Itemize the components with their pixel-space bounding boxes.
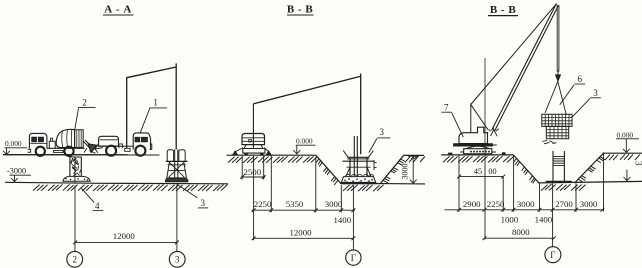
pit slope hatching middle — [316, 157, 425, 192]
flatbed truck 1 — [95, 133, 152, 156]
ground line middle left — [227, 154, 316, 156]
svg-text:2250: 2250 — [254, 199, 272, 209]
axis circle G (right) — [545, 247, 561, 263]
ground hatching right section — [443, 156, 514, 163]
road line — [3, 154, 160, 156]
svg-text:3000: 3000 — [325, 199, 343, 209]
slings — [545, 81, 566, 115]
svg-text:1000: 1000 — [501, 215, 519, 225]
ladder support in right pit — [546, 151, 572, 182]
foundation column 4 — [63, 157, 90, 184]
far right ground + 0.000 — [603, 130, 642, 160]
svg-text:В - В: В - В — [490, 4, 517, 16]
svg-text:2: 2 — [82, 98, 87, 108]
svg-text:3: 3 — [175, 255, 180, 265]
mixer truck 2 — [28, 129, 97, 156]
dimension 12000 (A-A) — [73, 185, 179, 252]
svg-text:0.000: 0.000 — [5, 139, 22, 148]
svg-text:3000: 3000 — [401, 164, 410, 180]
axis circle 3 — [169, 251, 185, 267]
section title A-A — [103, 4, 134, 16]
dimension rows right section — [459, 153, 604, 246]
reinforcement cage load — [542, 114, 572, 144]
svg-text:5350: 5350 — [286, 199, 304, 209]
dimension row 2250 5350 3000 (middle) — [252, 156, 356, 250]
ground line A-A — [5, 182, 228, 184]
dimension 12000 (middle) — [252, 227, 356, 240]
ground line right section — [441, 154, 513, 156]
dim 8000 — [483, 227, 556, 240]
leader + label 1 — [140, 98, 167, 133]
svg-text:1: 1 — [153, 98, 158, 108]
dim 4500 — [457, 167, 505, 179]
leader + label 3 (middle) — [369, 127, 391, 153]
section title B-B middle — [287, 4, 314, 16]
svg-text:2700: 2700 — [555, 199, 573, 209]
svg-text:12000: 12000 — [290, 227, 313, 237]
vertical dim 3000 (middle pit) — [401, 155, 420, 183]
leader + label 3 (A-A) — [177, 184, 208, 208]
svg-text:А - А: А - А — [104, 4, 132, 16]
svg-text:0.000: 0.000 — [296, 136, 313, 145]
ground hatching middle left — [228, 156, 318, 163]
crane boom — [471, 4, 559, 132]
leader + label 3 (right) — [572, 88, 601, 117]
crawler crane 7 — [454, 105, 499, 154]
leader + label 6 — [560, 74, 585, 105]
depth arrow right — [624, 161, 642, 181]
svg-text:0.000: 0.000 — [617, 130, 634, 139]
leader + label 7 — [441, 102, 463, 137]
leader + label 2 — [75, 98, 96, 131]
svg-text:6: 6 — [578, 74, 583, 84]
portal frame — [125, 63, 177, 151]
axis circle G (middle) — [346, 250, 361, 265]
svg-text:7: 7 — [444, 102, 449, 112]
level mark 0.000 middle — [293, 136, 315, 153]
svg-text:45: 45 — [474, 167, 482, 176]
svg-text:2900: 2900 — [463, 199, 481, 209]
section title B-B right — [488, 4, 518, 16]
svg-text:1400: 1400 — [535, 215, 553, 225]
hoist cables — [557, 5, 559, 72]
svg-text:2: 2 — [72, 255, 77, 265]
hook block — [556, 71, 561, 82]
axis circle 2 — [67, 251, 83, 267]
outrigger pads — [449, 153, 506, 155]
svg-text:2500: 2500 — [244, 167, 262, 177]
svg-text:00: 00 — [488, 167, 496, 176]
svg-text:8000: 8000 — [512, 227, 530, 237]
svg-text:2250: 2250 — [487, 199, 505, 209]
svg-text:3000: 3000 — [517, 199, 535, 209]
svg-text:3: 3 — [633, 161, 642, 166]
dim row 2900 2250 3000 2700 3000 — [445, 199, 605, 225]
svg-text:12000: 12000 — [113, 231, 136, 241]
svg-text:Г: Г — [351, 253, 356, 263]
svg-text:3000: 3000 — [580, 199, 598, 209]
conductor support 3 (middle pit) — [341, 136, 377, 183]
ground hatching A-A — [33, 184, 228, 191]
level mark -3000 — [7, 167, 31, 182]
leader + label 4 — [82, 188, 104, 211]
svg-text:4: 4 — [95, 201, 100, 211]
svg-text:3: 3 — [201, 198, 206, 208]
svg-text:В - В: В - В — [287, 4, 314, 16]
excavation pit middle — [316, 155, 425, 184]
winch machine — [233, 134, 272, 156]
svg-text:-3000: -3000 — [7, 167, 26, 176]
svg-text:3: 3 — [593, 88, 598, 98]
svg-text:1400: 1400 — [334, 215, 352, 225]
svg-text:Г: Г — [550, 250, 555, 260]
support stand 3 — [165, 149, 188, 182]
tilted panel / mast line — [253, 74, 360, 155]
dimension row 2500 (middle) — [240, 156, 265, 180]
pit slope hatching right — [513, 156, 605, 190]
svg-text:3: 3 — [380, 127, 385, 137]
excavation pit right — [513, 153, 642, 183]
level mark 0.000 left — [3, 139, 27, 154]
crane axis line — [484, 58, 486, 155]
